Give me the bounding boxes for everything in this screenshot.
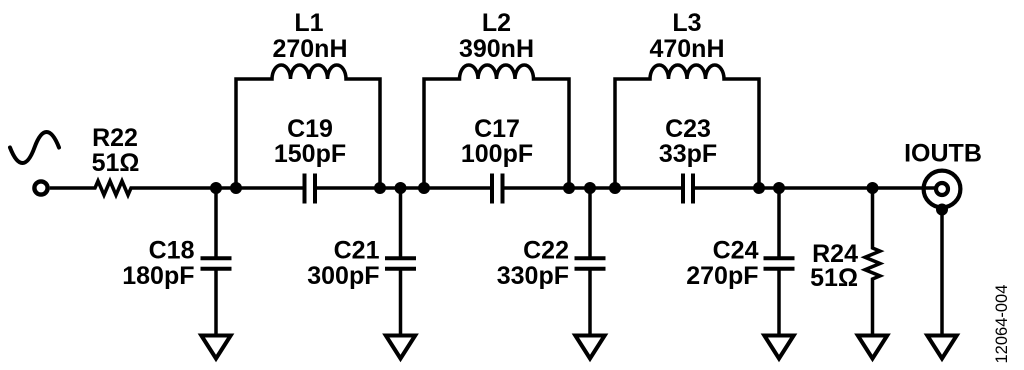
- svg-text:C22: C22: [523, 237, 569, 265]
- svg-text:51Ω: 51Ω: [810, 264, 858, 292]
- svg-text:C17: C17: [474, 115, 520, 143]
- svg-text:12064-004: 12064-004: [993, 285, 1011, 364]
- svg-text:100pF: 100pF: [461, 140, 533, 168]
- svg-text:C24: C24: [713, 237, 759, 265]
- svg-text:330pF: 330pF: [497, 262, 569, 290]
- svg-text:C21: C21: [334, 237, 380, 265]
- svg-text:IOUTB: IOUTB: [904, 140, 982, 168]
- svg-text:300pF: 300pF: [307, 262, 379, 290]
- svg-text:180pF: 180pF: [122, 262, 194, 290]
- svg-text:270pF: 270pF: [686, 262, 758, 290]
- svg-text:33pF: 33pF: [659, 140, 717, 168]
- svg-text:C19: C19: [287, 115, 333, 143]
- svg-text:C18: C18: [149, 237, 195, 265]
- svg-text:390nH: 390nH: [459, 35, 534, 63]
- svg-text:150pF: 150pF: [274, 140, 346, 168]
- svg-text:51Ω: 51Ω: [92, 149, 140, 177]
- svg-text:L1: L1: [294, 9, 323, 37]
- svg-text:L2: L2: [482, 9, 511, 37]
- svg-text:470nH: 470nH: [649, 35, 724, 63]
- svg-text:C23: C23: [665, 115, 711, 143]
- svg-text:L3: L3: [672, 9, 701, 37]
- svg-text:270nH: 270nH: [272, 35, 347, 63]
- svg-text:R22: R22: [92, 124, 138, 152]
